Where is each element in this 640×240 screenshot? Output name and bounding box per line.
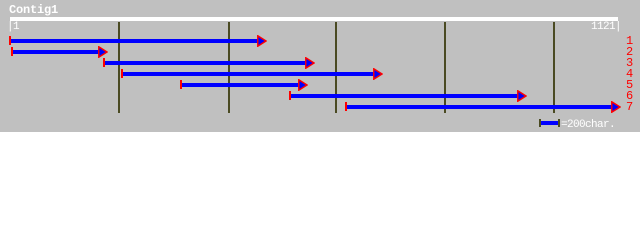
grid line 3 [335, 22, 337, 113]
row number 1 [626, 37, 633, 45]
legend right cap [558, 119, 560, 127]
row number 5 [626, 81, 633, 89]
read arrow 5 tail tick [180, 80, 182, 89]
read arrow 3 head [305, 57, 315, 69]
legend left cap [539, 119, 541, 127]
read arrow 2 shaft [13, 50, 100, 54]
read arrow 4 shaft [123, 72, 375, 76]
read arrow 6 tail tick [289, 91, 291, 100]
read arrow 1 shaft [11, 39, 259, 43]
read arrow 5 shaft [182, 83, 300, 87]
grid line 5 [553, 22, 555, 113]
read arrow 1 tail tick [9, 36, 11, 45]
read arrow 4 head [373, 68, 383, 80]
legend blue bar [541, 121, 558, 125]
read arrow 7 tail tick [345, 102, 347, 111]
read arrow 4 tail tick [121, 69, 123, 78]
read arrow 7 head [611, 101, 621, 113]
legend text =200char. [561, 121, 615, 129]
row number 2 [626, 48, 633, 56]
row number 4 [626, 70, 633, 78]
row number 6 [626, 92, 633, 100]
grid line 2 [228, 22, 230, 113]
grid line 1 [118, 22, 120, 113]
title Contig1 [9, 4, 58, 16]
grid line 4 [444, 22, 446, 113]
row number 7 [626, 103, 633, 111]
read arrow 5 head [298, 79, 308, 91]
read arrow 6 shaft [291, 94, 519, 98]
read arrow 6 head [517, 90, 527, 102]
row number 3 [626, 59, 633, 67]
read arrow 2 tail tick [11, 47, 13, 56]
ruler bar [10, 17, 618, 21]
ruler label right 1121| [591, 23, 621, 31]
read arrow 3 tail tick [103, 58, 105, 67]
read arrow 3 shaft [105, 61, 307, 65]
read arrow 1 head [257, 35, 267, 47]
read arrow 2 head [98, 46, 108, 58]
ruler label left |1 [7, 23, 19, 31]
read arrow 7 shaft [347, 105, 613, 109]
